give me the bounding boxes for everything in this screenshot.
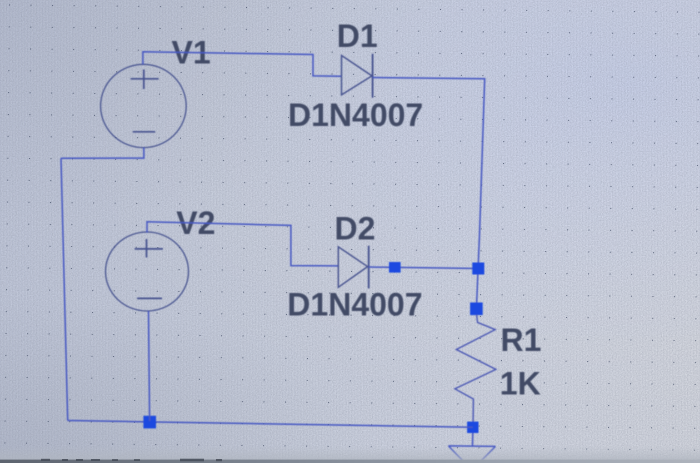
- voltage source V2: [106, 232, 189, 311]
- wire V1 bottom: [61, 148, 144, 159]
- svg-text:1K: 1K: [500, 365, 541, 401]
- svg-text:D1N4007: D1N4007: [288, 97, 423, 133]
- ground: [448, 446, 495, 462]
- wire V2 top to D2: [147, 222, 338, 266]
- junction right rail above R1: [470, 303, 483, 316]
- svg-text:D1N4007: D1N4007: [287, 287, 422, 323]
- wire D1 output and right rail: [373, 78, 485, 309]
- voltage source V1: [101, 64, 187, 147]
- junction V2 bottom: [143, 416, 156, 429]
- junction on D2 output: [389, 262, 401, 273]
- resistor R1: [455, 315, 496, 428]
- junction bottom right: [467, 422, 478, 433]
- diode D1: [342, 54, 373, 98]
- wire bottom rail: [68, 421, 473, 428]
- svg-text:R1: R1: [501, 322, 542, 358]
- svg-text:D1: D1: [337, 18, 378, 54]
- svg-text:D2: D2: [335, 210, 376, 246]
- junction right rail top: [472, 263, 484, 275]
- wire V2 bottom: [149, 311, 150, 421]
- diode D2: [338, 246, 368, 289]
- wire D2 output: [369, 267, 479, 269]
- wire V1 top to D1: [143, 52, 342, 76]
- wire to ground: [472, 433, 474, 446]
- wire left rail: [61, 158, 68, 420]
